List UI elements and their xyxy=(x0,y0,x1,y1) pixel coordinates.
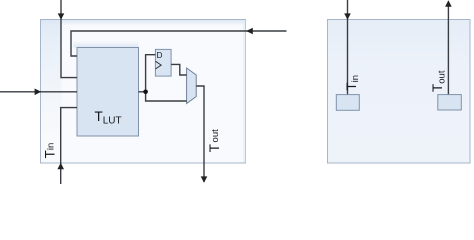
svg-text:Tin: Tin xyxy=(43,143,58,159)
svg-text:D: D xyxy=(157,51,163,60)
svg-text:Tout: Tout xyxy=(207,129,222,152)
